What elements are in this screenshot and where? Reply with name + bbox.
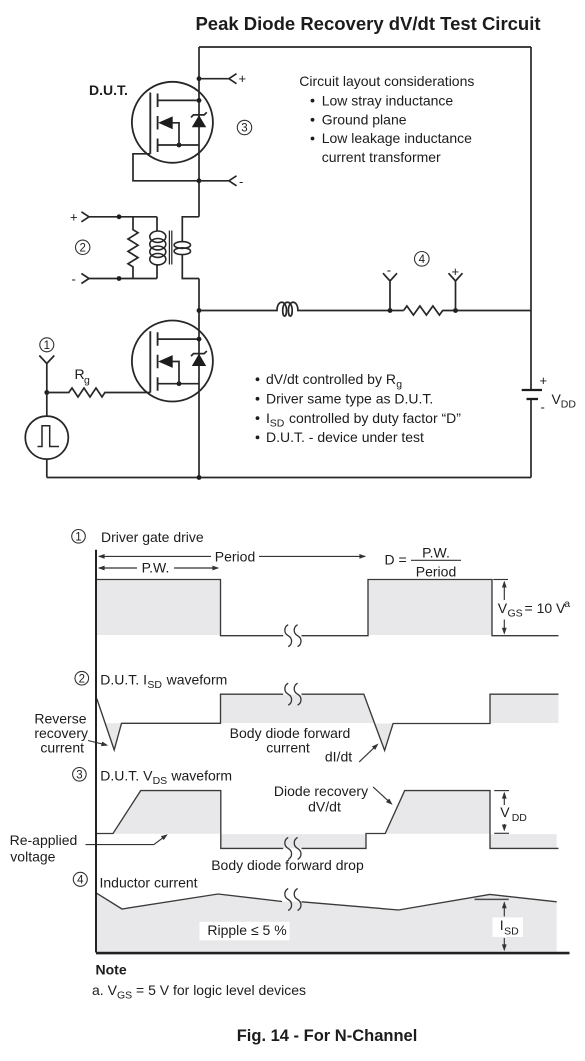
svg-text:Circuit layout considerations: Circuit layout considerations xyxy=(299,73,474,89)
svg-text:Diode recovery: Diode recovery xyxy=(274,783,368,799)
waveform 3 gray fill pulse A xyxy=(113,791,221,834)
svg-text:g: g xyxy=(396,379,402,391)
svg-text:g: g xyxy=(84,375,90,387)
svg-text:= 10 V: = 10 V xyxy=(525,600,567,616)
svg-text:2: 2 xyxy=(79,673,85,685)
wire top rail xyxy=(199,46,531,48)
node label 1 (gate drive) xyxy=(72,530,86,544)
svg-text:a. V: a. V xyxy=(92,982,118,998)
terminal - (recovery sense) xyxy=(383,273,397,310)
node label 4 (inductor current) xyxy=(73,872,87,886)
svg-text:Driver same type as D.U.T.: Driver same type as D.U.T. xyxy=(266,391,433,407)
svg-text:dV/dt: dV/dt xyxy=(308,798,341,814)
terminal + (recovery sense) xyxy=(449,273,463,310)
arrow reverse recovery pointer xyxy=(88,741,105,745)
wire main drain bus vertical xyxy=(198,47,200,217)
svg-text:Period: Period xyxy=(215,548,255,564)
svg-text:current: current xyxy=(40,739,84,755)
svg-text:a: a xyxy=(564,598,570,610)
node bottom rail junction xyxy=(197,475,202,480)
break marks waveform 3 xyxy=(285,837,292,859)
arrow re-applied pointer xyxy=(86,836,166,845)
svg-text:Inductor current: Inductor current xyxy=(100,875,198,891)
svg-text:Driver gate drive: Driver gate drive xyxy=(101,529,204,545)
tick ISD top xyxy=(475,898,509,900)
arrow VDD span xyxy=(503,793,505,830)
arrow Period xyxy=(99,555,365,557)
arrow dI/dt pointer xyxy=(359,746,376,762)
svg-text:3: 3 xyxy=(76,769,82,781)
node label 1 xyxy=(40,338,54,352)
svg-text:current: current xyxy=(266,740,310,756)
terminal gate drive input xyxy=(39,356,54,393)
node + sense terminal junction xyxy=(197,76,202,81)
node label 2 (ISD waveform) xyxy=(75,671,89,685)
svg-text:+: + xyxy=(452,264,460,279)
svg-text:= 5 V for logic level devices: = 5 V for logic level devices xyxy=(136,982,306,998)
svg-text:Note: Note xyxy=(96,962,127,978)
waveform 2 gray fill conduction B xyxy=(490,695,559,723)
svg-text:Low leakage inductance: Low leakage inductance xyxy=(322,130,472,146)
waveform 3 gray fill pulse B xyxy=(385,791,490,834)
node label 4 xyxy=(415,251,430,266)
arrow diode recovery pointer xyxy=(373,787,390,803)
waveform 4 gray fill inductor current xyxy=(96,893,557,952)
transformer core xyxy=(169,231,171,265)
secondary winding loops xyxy=(174,242,190,249)
arrow ISD span xyxy=(503,903,505,950)
svg-text:+: + xyxy=(70,210,78,225)
svg-text:V: V xyxy=(498,600,508,616)
svg-text:GS: GS xyxy=(508,607,523,619)
svg-text:1: 1 xyxy=(44,340,50,352)
node bottom rail tap xyxy=(117,276,122,281)
svg-text:dI/dt: dI/dt xyxy=(325,749,352,765)
svg-text:Ground plane: Ground plane xyxy=(322,112,407,128)
node + sense junction xyxy=(453,308,458,313)
waveform 3 trace xyxy=(96,791,559,849)
svg-text:Fig. 14 - For N-Channel: Fig. 14 - For N-Channel xyxy=(237,1027,418,1045)
terminal - (source sense) xyxy=(199,176,237,186)
svg-text:Re-applied: Re-applied xyxy=(10,832,78,848)
label ISD (waveform) xyxy=(493,918,524,938)
break marks waveform 4 xyxy=(285,889,292,911)
terminal + (transformer input) xyxy=(81,212,156,222)
arrow P.W. xyxy=(99,567,218,569)
terminal - (transformer input) xyxy=(81,274,156,284)
svg-text:DS: DS xyxy=(153,775,168,787)
svg-text:I: I xyxy=(500,917,504,933)
svg-text:waveform: waveform xyxy=(166,671,228,687)
svg-text:SD: SD xyxy=(270,417,285,429)
svg-text:controlled by duty factor “D”: controlled by duty factor “D” xyxy=(289,410,461,426)
resistor R1 Rg xyxy=(47,388,151,397)
svg-text:D.U.T.: D.U.T. xyxy=(89,82,128,98)
wire bottom rail xyxy=(47,477,531,479)
svg-text:+: + xyxy=(540,373,548,388)
node D.U.T. gate-source tie xyxy=(197,178,202,183)
node inductor tap xyxy=(197,308,202,313)
node label 3 xyxy=(237,120,251,134)
svg-text:4: 4 xyxy=(77,874,84,886)
svg-text:D.U.T. V: D.U.T. V xyxy=(100,767,153,783)
svg-text:waveform: waveform xyxy=(170,767,232,783)
wire right rail upper (to battery +) xyxy=(530,47,532,389)
svg-text:SD: SD xyxy=(147,679,162,691)
wire transformer secondary link xyxy=(182,217,199,279)
svg-text:-: - xyxy=(72,272,76,287)
svg-text:dV/dt controlled by R: dV/dt controlled by R xyxy=(266,371,396,387)
svg-text:GS: GS xyxy=(117,990,132,1002)
waveform axis (vertical) xyxy=(95,550,97,953)
waveform 4 trace xyxy=(96,893,557,910)
inductor primary winding xyxy=(156,217,158,279)
node - sense junction xyxy=(388,308,393,313)
svg-text:SD: SD xyxy=(504,925,519,937)
node label 2 xyxy=(76,240,90,254)
svg-text:-: - xyxy=(239,174,243,189)
wire main vertical below transformer xyxy=(198,279,200,478)
svg-text:D.U.T. - device under test: D.U.T. - device under test xyxy=(266,429,424,445)
svg-text:D.U.T. I: D.U.T. I xyxy=(100,671,147,687)
wire right rail lower (battery - to bottom) xyxy=(530,400,532,478)
svg-text:current transformer: current transformer xyxy=(322,149,441,165)
svg-text:P.W.: P.W. xyxy=(422,545,450,561)
waveform 1 gray fill pulse B xyxy=(368,580,492,635)
svg-text:V: V xyxy=(500,804,510,820)
svg-text:Peak Diode Recovery dV/dt Test: Peak Diode Recovery dV/dt Test Circuit xyxy=(195,13,540,34)
arrow VGS span xyxy=(503,582,505,633)
node top rail tap xyxy=(117,214,122,219)
svg-text:2: 2 xyxy=(79,242,85,254)
svg-text:Period: Period xyxy=(416,563,456,579)
waveform 2 gray fill conduction A xyxy=(221,695,375,723)
label ripple xyxy=(200,922,290,941)
svg-text:Ripple ≤ 5 %: Ripple ≤ 5 % xyxy=(207,922,286,938)
waveform 2 gray fill recovery notch A xyxy=(105,723,121,750)
waveform 3 gray fill diode drop band B xyxy=(490,834,557,848)
waveform 2 trace xyxy=(97,694,559,750)
tick VDD bottom xyxy=(494,832,509,834)
node label 3 (VDS waveform) xyxy=(73,768,87,782)
svg-text:-: - xyxy=(541,400,545,415)
svg-text:1: 1 xyxy=(75,531,81,543)
tick VGS top xyxy=(493,579,508,581)
wire D.U.T. gate-source loop xyxy=(133,154,199,181)
transistor Q2 driver MOSFET xyxy=(132,321,213,402)
svg-text:+: + xyxy=(239,71,247,86)
break marks waveform 1 xyxy=(285,625,292,647)
waveform 2 gray fill recovery notch B xyxy=(374,724,393,751)
svg-text:P.W.: P.W. xyxy=(142,560,170,576)
svg-text:DD: DD xyxy=(561,399,577,411)
svg-text:D =: D = xyxy=(385,552,407,568)
svg-text:3: 3 xyxy=(241,123,247,135)
waveform 1 trace xyxy=(96,580,559,636)
transistor Q1 D.U.T. MOSFET xyxy=(132,82,213,163)
pulse generator V1 xyxy=(25,416,68,459)
text dV/dt bullet notes xyxy=(256,377,260,381)
svg-text:-: - xyxy=(387,263,391,278)
terminal + (drain sense) xyxy=(199,74,237,84)
break marks waveform 2 xyxy=(285,683,292,705)
waveform 1 gray fill pulse A xyxy=(97,580,220,635)
waveform bottom axis xyxy=(96,952,570,955)
svg-text:voltage: voltage xyxy=(10,849,55,865)
inductor L1 (series) xyxy=(199,302,404,316)
waveform 3 gray fill diode drop band A xyxy=(221,834,366,848)
svg-text:Body diode forward drop: Body diode forward drop xyxy=(211,857,364,873)
tick VDD top xyxy=(494,790,509,792)
battery VDD xyxy=(522,389,542,391)
svg-text:Low stray inductance: Low stray inductance xyxy=(322,92,454,108)
svg-text:DD: DD xyxy=(512,812,528,824)
resistor (dV/dt sense) xyxy=(404,306,531,315)
resistor (transformer burden) xyxy=(128,217,138,279)
svg-text:4: 4 xyxy=(419,254,426,266)
node gate drive junction xyxy=(44,390,49,395)
